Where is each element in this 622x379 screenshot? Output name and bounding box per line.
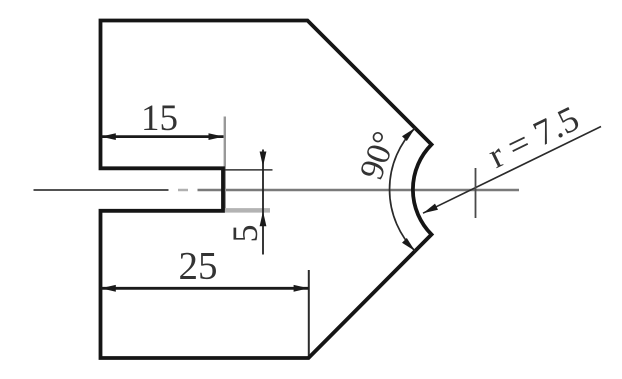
arrow angle top [402,128,415,141]
arrow angle bottom [402,238,415,251]
extension line 15 right (gray) [224,117,226,211]
svg-text:5: 5 [225,225,265,243]
dimension line 5 (vertical) [262,150,264,255]
arrow 25 right [294,285,309,292]
centerline left dash [34,189,169,191]
angle dimension arc 90 [390,128,415,251]
arrow 15 right [209,133,224,140]
dimension line 15 [101,135,224,138]
centerline short dash [178,189,188,192]
extension line slot top edge (thin) [223,169,273,171]
radius leader line [423,127,601,214]
arrow 5 bottom (points up) [260,211,267,226]
arc center cross tick [475,168,477,218]
arrow 15 left [101,133,116,140]
svg-text:25: 25 [179,245,218,288]
arrow 5 top (points down) [260,152,267,167]
dimension line 25 [101,287,309,290]
arrow leader [423,204,438,214]
part outline [101,21,432,359]
arrow 25 left [101,285,116,292]
centerline right segment [198,189,520,192]
extension line slot bottom edge (light gray thick) [225,208,270,213]
svg-text:15: 15 [141,98,178,139]
extension line 25 right [308,270,310,358]
